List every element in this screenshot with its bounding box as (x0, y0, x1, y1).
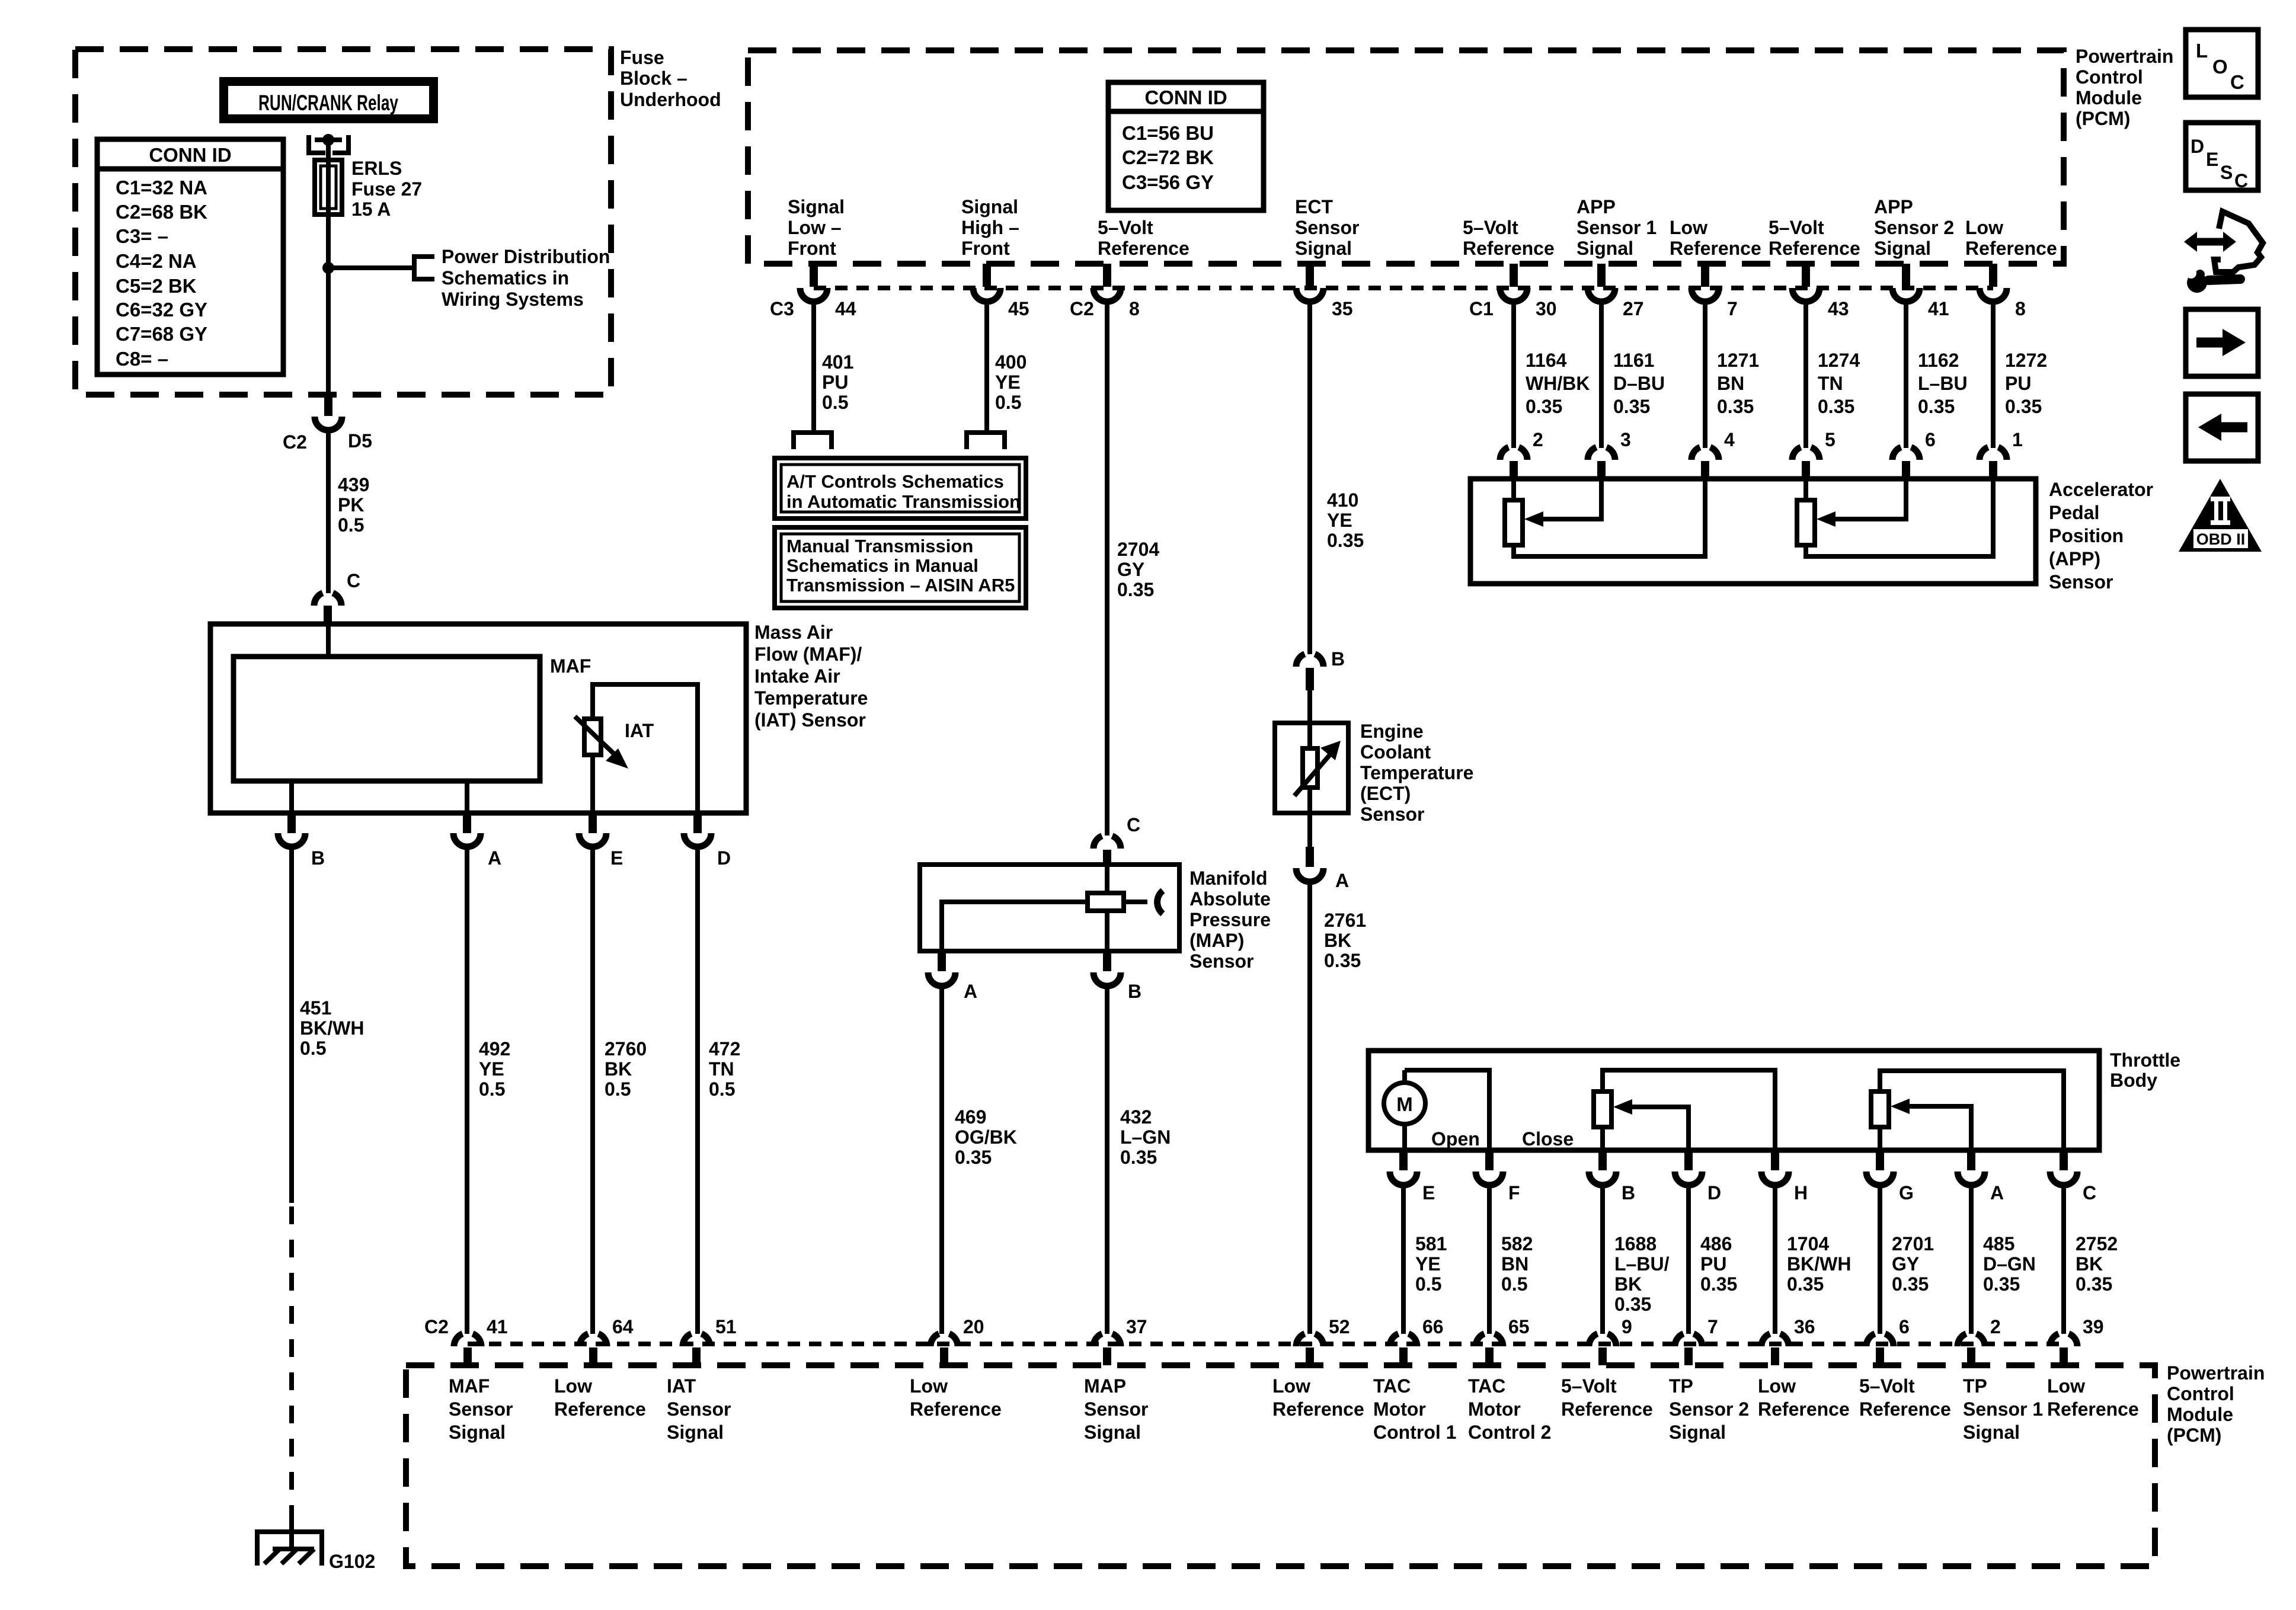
svg-text:1274: 1274 (1818, 350, 1860, 371)
svg-text:1161: 1161 (1613, 350, 1654, 371)
svg-text:Pressure: Pressure (1189, 909, 1271, 930)
svg-text:Sensor: Sensor (449, 1398, 513, 1420)
svg-text:Mass Air: Mass Air (754, 622, 833, 643)
TAC motor M (1405, 1070, 1489, 1150)
svg-text:C1: C1 (1469, 298, 1494, 319)
svg-text:Reference: Reference (1670, 238, 1761, 259)
svg-text:C3=56 GY: C3=56 GY (1122, 171, 1214, 193)
svg-text:Sensor: Sensor (1360, 804, 1424, 825)
svg-text:6: 6 (1925, 429, 1936, 450)
svg-text:BK: BK (605, 1058, 632, 1080)
svg-text:WH/BK: WH/BK (1526, 373, 1590, 394)
APP pot 2 (1806, 479, 1993, 556)
svg-text:IAT: IAT (667, 1375, 696, 1397)
PCM bottom dashed box (406, 1365, 2155, 1566)
fuse block underhood dashed box (75, 49, 611, 395)
svg-text:0.35: 0.35 (1700, 1273, 1737, 1295)
svg-text:66: 66 (1422, 1316, 1444, 1337)
IAT thermistor (584, 719, 601, 755)
svg-text:(IAT) Sensor: (IAT) Sensor (754, 709, 866, 731)
svg-text:Position: Position (2049, 525, 2124, 546)
svg-text:0.35: 0.35 (2076, 1273, 2112, 1295)
svg-text:C3= –: C3= – (116, 225, 168, 247)
wire 401 PU (811, 300, 816, 433)
svg-text:Low: Low (1758, 1375, 1796, 1397)
svg-text:Signal: Signal (667, 1422, 724, 1443)
svg-text:ECT: ECT (1295, 196, 1333, 217)
junction dot relay output (322, 134, 334, 146)
svg-text:9: 9 (1622, 1316, 1632, 1337)
svg-text:1: 1 (2012, 429, 2023, 450)
svg-text:Fuse 27: Fuse 27 (351, 178, 422, 200)
svg-text:0.35: 0.35 (1918, 396, 1955, 417)
svg-text:Pedal: Pedal (2049, 502, 2099, 523)
svg-text:30: 30 (1536, 298, 1557, 319)
CONN ID table fuse block (97, 139, 283, 375)
svg-text:43: 43 (1828, 298, 1849, 319)
svg-text:0.5: 0.5 (1415, 1273, 1441, 1295)
svg-text:0.35: 0.35 (1818, 396, 1854, 417)
APP connector pin 5 (1792, 447, 1819, 460)
svg-text:in Automatic Transmission: in Automatic Transmission (786, 491, 1021, 512)
fuse ERLS F27 (326, 160, 331, 268)
svg-text:Control 2: Control 2 (1468, 1422, 1551, 1443)
svg-text:C8= –: C8= – (116, 348, 168, 370)
PCM bottom pin 6 (1866, 1334, 1894, 1346)
svg-text:51: 51 (715, 1316, 737, 1337)
wire 451 dashed to ground (289, 1206, 294, 1530)
wire 400 YE (984, 300, 989, 433)
svg-text:Signal: Signal (1874, 238, 1931, 259)
svg-text:0.35: 0.35 (1120, 1147, 1157, 1168)
PCM pin at x=3047 (1802, 264, 1810, 287)
svg-text:C: C (2234, 170, 2248, 191)
svg-text:OBD II: OBD II (2196, 530, 2246, 548)
svg-text:Signal: Signal (961, 196, 1018, 217)
svg-text:Temperature: Temperature (1360, 762, 1473, 783)
svg-text:(ECT): (ECT) (1360, 783, 1411, 804)
svg-text:MAP: MAP (1084, 1375, 1126, 1397)
svg-text:GY: GY (1117, 559, 1144, 580)
ECT connector B (1296, 654, 1323, 667)
svg-text:Block –: Block – (620, 68, 687, 89)
svg-text:15 A: 15 A (351, 199, 391, 220)
svg-text:0.35: 0.35 (1613, 396, 1650, 417)
svg-text:L–BU: L–BU (1918, 373, 1968, 394)
svg-text:2704: 2704 (1117, 539, 1159, 560)
svg-text:PU: PU (2005, 373, 2031, 394)
svg-text:B: B (1331, 648, 1345, 670)
svg-text:5–Volt: 5–Volt (1859, 1375, 1915, 1397)
svg-text:Front: Front (788, 238, 836, 259)
OBD II icon (2179, 479, 2262, 552)
svg-text:Control: Control (2076, 66, 2143, 88)
svg-text:BK/WH: BK/WH (300, 1017, 364, 1039)
svg-text:Sensor 2: Sensor 2 (1874, 217, 1954, 238)
PCM bottom pin 20 (930, 1334, 958, 1346)
svg-text:Schematics in: Schematics in (442, 267, 569, 289)
TB pin A (1967, 1150, 1975, 1170)
svg-text:Module: Module (2076, 87, 2142, 108)
svg-text:7: 7 (1727, 298, 1738, 319)
svg-text:D: D (1707, 1182, 1721, 1204)
svg-text:Reference: Reference (1758, 1398, 1850, 1420)
PCM bottom pin 2 (1958, 1334, 1985, 1346)
svg-text:O: O (2212, 56, 2228, 78)
svg-text:39: 39 (2083, 1316, 2104, 1337)
svg-text:Reference: Reference (554, 1398, 646, 1420)
svg-text:0.5: 0.5 (995, 392, 1021, 413)
svg-text:Sensor: Sensor (1189, 950, 1253, 972)
wire 2704 GY (1105, 300, 1109, 836)
svg-text:Wiring Systems: Wiring Systems (442, 289, 584, 310)
svg-text:451: 451 (300, 997, 331, 1019)
svg-text:2760: 2760 (605, 1038, 647, 1060)
svg-text:CONN ID: CONN ID (149, 144, 231, 166)
svg-text:Body: Body (2110, 1070, 2157, 1091)
svg-text:C2=72 BK: C2=72 BK (1122, 146, 1214, 168)
svg-text:Open: Open (1431, 1128, 1480, 1150)
svg-text:1271: 1271 (1717, 350, 1759, 371)
svg-text:OG/BK: OG/BK (955, 1126, 1017, 1148)
relay terminal brackets (306, 135, 325, 155)
svg-text:C7=68 GY: C7=68 GY (116, 323, 207, 345)
svg-text:Reference: Reference (1561, 1398, 1653, 1420)
svg-text:41: 41 (487, 1316, 508, 1337)
connector C arc at MAF (314, 593, 341, 606)
svg-text:Manual Transmission: Manual Transmission (786, 536, 973, 556)
PCM bottom harness connector thin dashed line (468, 1342, 2064, 1346)
svg-text:Control: Control (2167, 1383, 2234, 1404)
svg-text:C2: C2 (424, 1316, 449, 1337)
svg-text:F: F (1508, 1182, 1520, 1204)
svg-text:A: A (964, 981, 977, 1002)
svg-text:Low –: Low – (788, 217, 842, 238)
svg-text:410: 410 (1327, 489, 1358, 511)
TB pin C (2060, 1150, 2068, 1170)
svg-text:L–BU/: L–BU/ (1614, 1253, 1670, 1275)
svg-text:432: 432 (1120, 1106, 1152, 1128)
svg-text:0.5: 0.5 (479, 1078, 505, 1100)
svg-text:S: S (2220, 162, 2233, 183)
svg-text:Coolant: Coolant (1360, 741, 1431, 763)
PCM bottom pin 52 (1296, 1334, 1323, 1346)
TB pin B (1598, 1150, 1607, 1170)
svg-text:Low: Low (1670, 217, 1707, 238)
svg-text:PU: PU (822, 372, 848, 393)
PCM pin at x=2554 (1510, 264, 1518, 287)
svg-text:L: L (2196, 40, 2208, 62)
svg-text:Low: Low (1272, 1375, 1310, 1397)
svg-text:YE: YE (479, 1058, 504, 1080)
svg-text:Underhood: Underhood (620, 89, 721, 110)
IAT resistor loop (593, 684, 698, 813)
svg-text:Signal: Signal (1295, 238, 1352, 259)
MAP connector C (1093, 836, 1121, 849)
svg-text:0.35: 0.35 (1983, 1273, 2020, 1295)
svg-text:Accelerator: Accelerator (2049, 479, 2153, 500)
svg-text:C4=2 NA: C4=2 NA (116, 250, 197, 272)
MAP connector B (1103, 951, 1111, 971)
svg-text:D–BU: D–BU (1613, 373, 1665, 394)
APP pot 1 (1514, 479, 1705, 556)
PCM bottom pin 66 (1390, 1334, 1417, 1346)
wire 472 TN (695, 846, 700, 1334)
svg-text:ERLS: ERLS (351, 158, 402, 179)
wire 469 OG/BK (939, 985, 944, 1334)
power distribution bracket (414, 257, 434, 279)
svg-text:YE: YE (1327, 510, 1352, 531)
svg-text:Manifold: Manifold (1189, 868, 1268, 889)
svg-text:Reference: Reference (910, 1398, 1002, 1420)
APP connector pin 3 (1588, 447, 1615, 460)
svg-text:H: H (1794, 1182, 1808, 1204)
PCM pin at x=2877 (1701, 264, 1709, 287)
svg-text:Front: Front (961, 238, 1010, 259)
svg-text:APP: APP (1576, 196, 1616, 217)
svg-text:C2=68 BK: C2=68 BK (116, 201, 207, 223)
svg-text:TP: TP (1963, 1375, 1987, 1397)
MAP sensor box (920, 865, 1179, 951)
svg-text:1688: 1688 (1614, 1233, 1657, 1254)
svg-text:Reference: Reference (1272, 1398, 1364, 1420)
MAF pins B A E D (287, 813, 296, 833)
svg-text:BN: BN (1501, 1253, 1528, 1275)
svg-text:0.35: 0.35 (2005, 396, 2042, 417)
back arrow icon (2186, 394, 2258, 461)
svg-text:C: C (2230, 71, 2244, 93)
svg-text:8: 8 (2015, 298, 2026, 319)
svg-text:E: E (1422, 1182, 1435, 1204)
svg-text:485: 485 (1983, 1233, 2014, 1254)
TB pin D (1684, 1150, 1693, 1170)
ECT thermistor (1303, 748, 1318, 788)
ECT sensor box (1275, 723, 1348, 813)
svg-text:472: 472 (709, 1038, 740, 1060)
svg-text:5–Volt: 5–Volt (1098, 217, 1153, 238)
TB pin G (1876, 1150, 1884, 1170)
PCM pin at x=2702 (1597, 264, 1606, 287)
PCM bottom pin 7 (1675, 1334, 1702, 1346)
APP connector pin 4 (1691, 447, 1719, 460)
svg-text:TAC: TAC (1373, 1375, 1411, 1397)
wire 492 YE (465, 846, 469, 1334)
svg-text:2752: 2752 (2076, 1233, 2118, 1254)
PCM C1/C2/C3 harness connector thin dashed line (814, 286, 1993, 290)
connector C2/D5 pin (324, 395, 332, 416)
svg-text:486: 486 (1700, 1233, 1732, 1254)
svg-text:TN: TN (1818, 373, 1843, 394)
svg-text:Low: Low (554, 1375, 592, 1397)
MAP connector A (938, 951, 946, 971)
svg-text:0.5: 0.5 (709, 1078, 735, 1100)
svg-text:0.35: 0.35 (1614, 1294, 1651, 1315)
APP connector pin 6 (1892, 447, 1920, 460)
svg-text:MAF: MAF (550, 655, 591, 677)
junction dot power dist (322, 262, 334, 274)
svg-text:Sensor 1: Sensor 1 (1963, 1398, 2043, 1420)
wire MAF pin A inside (465, 781, 469, 813)
svg-text:D: D (2191, 136, 2204, 157)
svg-text:A: A (1335, 870, 1349, 891)
svg-text:IAT: IAT (625, 720, 654, 741)
svg-text:581: 581 (1415, 1233, 1447, 1254)
svg-text:35: 35 (1332, 298, 1353, 319)
svg-text:Low: Low (910, 1375, 948, 1397)
svg-text:Sensor: Sensor (2049, 571, 2113, 593)
svg-text:Throttle: Throttle (2110, 1049, 2180, 1071)
svg-text:(PCM): (PCM) (2076, 108, 2130, 129)
svg-text:E: E (2206, 149, 2218, 170)
svg-text:C2: C2 (1070, 298, 1094, 319)
svg-text:Sensor 1: Sensor 1 (1576, 217, 1657, 238)
svg-text:CONN ID: CONN ID (1144, 87, 1227, 108)
ground G102 (289, 1515, 294, 1549)
svg-text:2: 2 (1533, 429, 1543, 450)
svg-text:1164: 1164 (1526, 350, 1567, 371)
PCM pin at x=1665 (983, 264, 991, 287)
svg-text:BK: BK (1614, 1273, 1642, 1295)
PCM pin at x=2210 (1306, 264, 1314, 287)
TP sensor 1 (1880, 1071, 2064, 1150)
svg-text:C1=56 BU: C1=56 BU (1122, 122, 1214, 144)
wire 432 L-GN (1105, 985, 1109, 1334)
PCM bottom pin 41 (454, 1334, 481, 1346)
svg-text:Temperature: Temperature (754, 687, 868, 709)
svg-text:C: C (2083, 1182, 2096, 1204)
svg-text:Control 1: Control 1 (1373, 1422, 1456, 1443)
svg-text:A/T Controls Schematics: A/T Controls Schematics (786, 471, 1004, 492)
svg-text:492: 492 (479, 1038, 510, 1060)
svg-text:Close: Close (1522, 1128, 1574, 1150)
svg-text:Schematics in Manual: Schematics in Manual (786, 555, 978, 576)
svg-text:64: 64 (612, 1316, 634, 1337)
svg-text:C: C (347, 570, 360, 591)
PCM bottom pin 64 (580, 1334, 607, 1346)
svg-text:High –: High – (961, 217, 1019, 238)
svg-text:C5=2 BK: C5=2 BK (116, 275, 197, 297)
forward arrow icon (2186, 309, 2258, 376)
svg-text:B: B (1622, 1182, 1635, 1204)
wire MAF pin B inside (289, 781, 294, 813)
svg-text:C6=32 GY: C6=32 GY (116, 299, 207, 321)
PCM pin at x=3216 (1902, 264, 1910, 287)
svg-text:Signal: Signal (1576, 238, 1633, 259)
svg-text:PK: PK (338, 494, 364, 516)
svg-text:0.5: 0.5 (605, 1078, 631, 1100)
svg-text:Signal: Signal (788, 196, 845, 217)
svg-text:45: 45 (1008, 298, 1029, 319)
TP sensor 2 (1603, 1070, 1775, 1150)
svg-text:8: 8 (1129, 298, 1140, 319)
PCM pin at x=1868 (1103, 264, 1111, 287)
PCM bottom pin 37 (1093, 1334, 1121, 1346)
svg-text:0.5: 0.5 (822, 392, 848, 413)
svg-text:65: 65 (1508, 1316, 1530, 1337)
svg-text:Sensor: Sensor (1295, 217, 1359, 238)
svg-text:0.35: 0.35 (1324, 950, 1361, 971)
svg-text:YE: YE (1415, 1253, 1441, 1275)
svg-text:A: A (1990, 1182, 2004, 1204)
svg-text:582: 582 (1501, 1233, 1533, 1254)
svg-text:C: C (1127, 814, 1140, 836)
svg-text:Reference: Reference (1859, 1398, 1951, 1420)
svg-text:5–Volt: 5–Volt (1463, 217, 1518, 238)
TB pin E (1399, 1150, 1408, 1170)
svg-text:BN: BN (1717, 373, 1744, 394)
svg-text:0.35: 0.35 (1717, 396, 1754, 417)
svg-text:400: 400 (995, 351, 1027, 373)
svg-text:0.5: 0.5 (1501, 1273, 1527, 1295)
svg-text:Motor: Motor (1373, 1398, 1426, 1420)
svg-text:6: 6 (1899, 1316, 1910, 1337)
svg-text:(APP): (APP) (2049, 548, 2100, 569)
svg-text:0.35: 0.35 (1327, 530, 1364, 551)
svg-text:Module: Module (2167, 1404, 2233, 1425)
svg-text:439: 439 (338, 474, 369, 495)
svg-text:2701: 2701 (1892, 1233, 1934, 1254)
svg-text:(MAP): (MAP) (1189, 930, 1244, 951)
svg-text:RUN/CRANK Relay: RUN/CRANK Relay (258, 91, 398, 115)
APP connector pin 1 (1980, 447, 2007, 460)
svg-text:MAF: MAF (449, 1375, 490, 1397)
svg-text:27: 27 (1623, 298, 1644, 319)
wire 439 (326, 429, 331, 593)
svg-text:Power Distribution: Power Distribution (442, 246, 610, 267)
svg-text:G102: G102 (329, 1551, 375, 1572)
PCM bottom pin 39 (2050, 1334, 2077, 1346)
wire relay to fuse (326, 140, 331, 160)
wire 2760 BK (590, 846, 595, 1334)
svg-text:0.35: 0.35 (1117, 579, 1154, 600)
svg-text:Sensor: Sensor (1084, 1398, 1148, 1420)
svg-text:Reference: Reference (1965, 238, 2057, 259)
PCM pin at x=3363 (1989, 264, 1997, 287)
svg-text:1704: 1704 (1787, 1233, 1829, 1254)
svg-text:A: A (488, 847, 501, 869)
svg-text:Absolute: Absolute (1189, 888, 1271, 910)
PCM top dashed box (748, 50, 2064, 264)
svg-text:401: 401 (822, 351, 853, 373)
svg-text:Signal: Signal (1963, 1422, 2020, 1443)
svg-text:Fuse: Fuse (620, 47, 664, 68)
svg-text:BK/WH: BK/WH (1787, 1253, 1851, 1275)
svg-text:Flow (MAF)/: Flow (MAF)/ (754, 644, 862, 665)
svg-text:B: B (311, 847, 325, 869)
Manual transmission schematics callout box (775, 527, 1026, 608)
svg-text:5–Volt: 5–Volt (1561, 1375, 1617, 1397)
svg-text:D–GN: D–GN (1983, 1253, 2036, 1275)
TB pin H (1771, 1150, 1779, 1170)
wire to power distribution bracket (328, 265, 414, 270)
svg-text:37: 37 (1126, 1316, 1147, 1337)
A/T controls schematics callout box (775, 458, 1026, 518)
MAP pressure element (942, 902, 1088, 951)
svg-text:Reference: Reference (1098, 238, 1189, 259)
svg-text:Reference: Reference (2047, 1398, 2139, 1420)
svg-text:E: E (610, 847, 623, 869)
svg-text:0.35: 0.35 (955, 1147, 992, 1168)
svg-text:0.5: 0.5 (300, 1038, 326, 1059)
svg-text:Powertrain: Powertrain (2076, 46, 2173, 67)
svg-text:BK: BK (2076, 1253, 2103, 1275)
svg-text:5: 5 (1825, 429, 1835, 450)
svg-text:D: D (717, 847, 731, 869)
svg-text:Reference: Reference (1769, 238, 1860, 259)
svg-text:2761: 2761 (1324, 910, 1366, 931)
LOC icon (2186, 30, 2258, 97)
svg-text:Signal: Signal (449, 1422, 506, 1443)
